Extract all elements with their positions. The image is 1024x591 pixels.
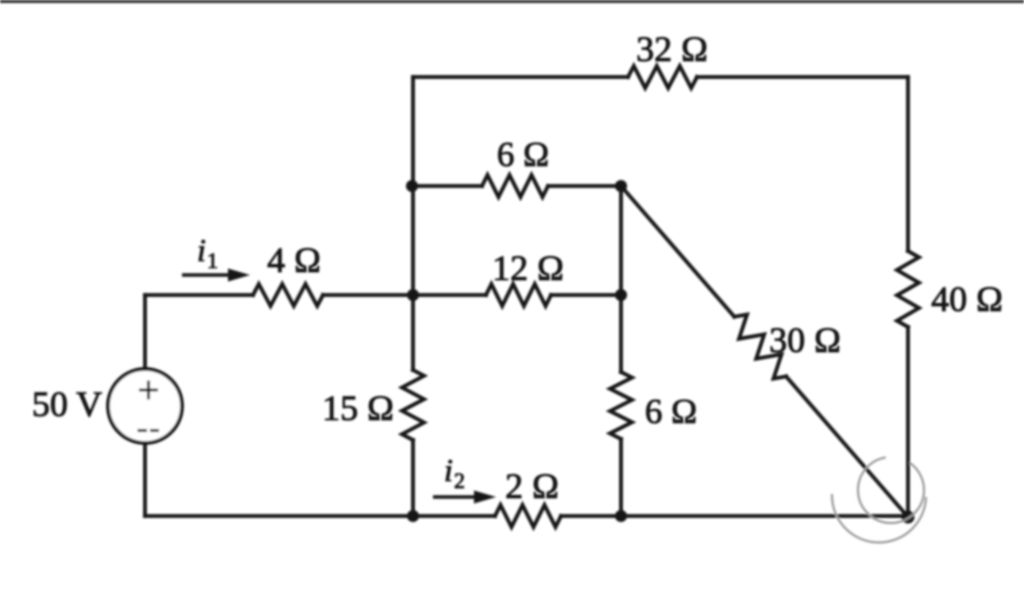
resistor R 6ohm top zigzag (482, 175, 548, 197)
node D junction dot (615, 180, 627, 192)
svg-text:i: i (444, 452, 453, 488)
resistor R 6ohm right zigzag (610, 372, 632, 439)
svg-text:40 Ω: 40 Ω (931, 279, 1003, 319)
resistor R 2ohm zigzag (495, 505, 561, 527)
node A junction dot (407, 289, 419, 301)
voltage source minus sign (138, 429, 160, 432)
wire: middle inner vertical lower (619, 439, 623, 516)
node C junction dot (406, 180, 418, 192)
node F junction dot (615, 510, 627, 522)
wire: middle row left of 4ohm (145, 293, 253, 297)
svg-text:50 V: 50 V (32, 384, 102, 424)
voltage source plus sign (139, 381, 158, 400)
svg-text:30 Ω: 30 Ω (769, 320, 841, 360)
resistor R 4ohm zigzag (253, 284, 323, 306)
svg-text:1: 1 (207, 248, 218, 273)
node E junction dot (407, 510, 419, 522)
svg-text:2: 2 (454, 468, 465, 493)
svg-text:4 Ω: 4 Ω (267, 240, 321, 280)
resistor R 12ohm zigzag (486, 284, 551, 306)
wire: top rail left of 32ohm (413, 75, 628, 79)
wire: diagonal upper segment (621, 186, 734, 317)
wire: second row left of 6ohm (413, 184, 482, 188)
current arrow i2 (433, 491, 496, 504)
wire: bottom rail left segment (145, 514, 495, 518)
wire: source bottom to bottom rail (143, 443, 147, 516)
resistor R 40ohm zigzag (897, 251, 919, 327)
svg-text:2 Ω: 2 Ω (505, 466, 559, 506)
svg-text:32 Ω: 32 Ω (636, 29, 708, 69)
wire: diagonal lower segment (786, 376, 908, 517)
svg-text:6 Ω: 6 Ω (497, 135, 549, 174)
wire: middle inner vertical upper (619, 186, 623, 372)
svg-text:i: i (197, 232, 206, 268)
wire: bottom rail right segment (561, 514, 908, 518)
wire: right vertical upper (906, 77, 910, 251)
wire: left inner vertical lower (411, 440, 415, 516)
wire: middle row 4ohm to 12ohm (323, 293, 486, 297)
wire: top rail right of 32ohm (697, 75, 908, 79)
annotation arc large (832, 494, 926, 542)
wire: left inner vertical upper (411, 77, 415, 370)
wire: second row 6ohm to node (548, 184, 621, 188)
svg-text:6 Ω: 6 Ω (645, 392, 697, 431)
wire: source top to middle row (143, 295, 147, 369)
svg-text:12 Ω: 12 Ω (492, 248, 564, 288)
annotation arc small (858, 457, 924, 523)
resistor R 32ohm zigzag (628, 66, 697, 88)
node G junction dot (902, 511, 915, 524)
resistor R 30ohm zigzag (734, 315, 786, 379)
voltage source V1 circle (108, 369, 182, 443)
node B junction dot (615, 289, 627, 301)
top border bar (0, 0, 1024, 3)
resistor R 15ohm zigzag (402, 370, 424, 440)
svg-text:15 Ω: 15 Ω (322, 388, 394, 428)
wire: right vertical lower (906, 327, 910, 517)
wire: middle row 12ohm to node (551, 293, 621, 297)
current arrow i1 (182, 269, 250, 282)
